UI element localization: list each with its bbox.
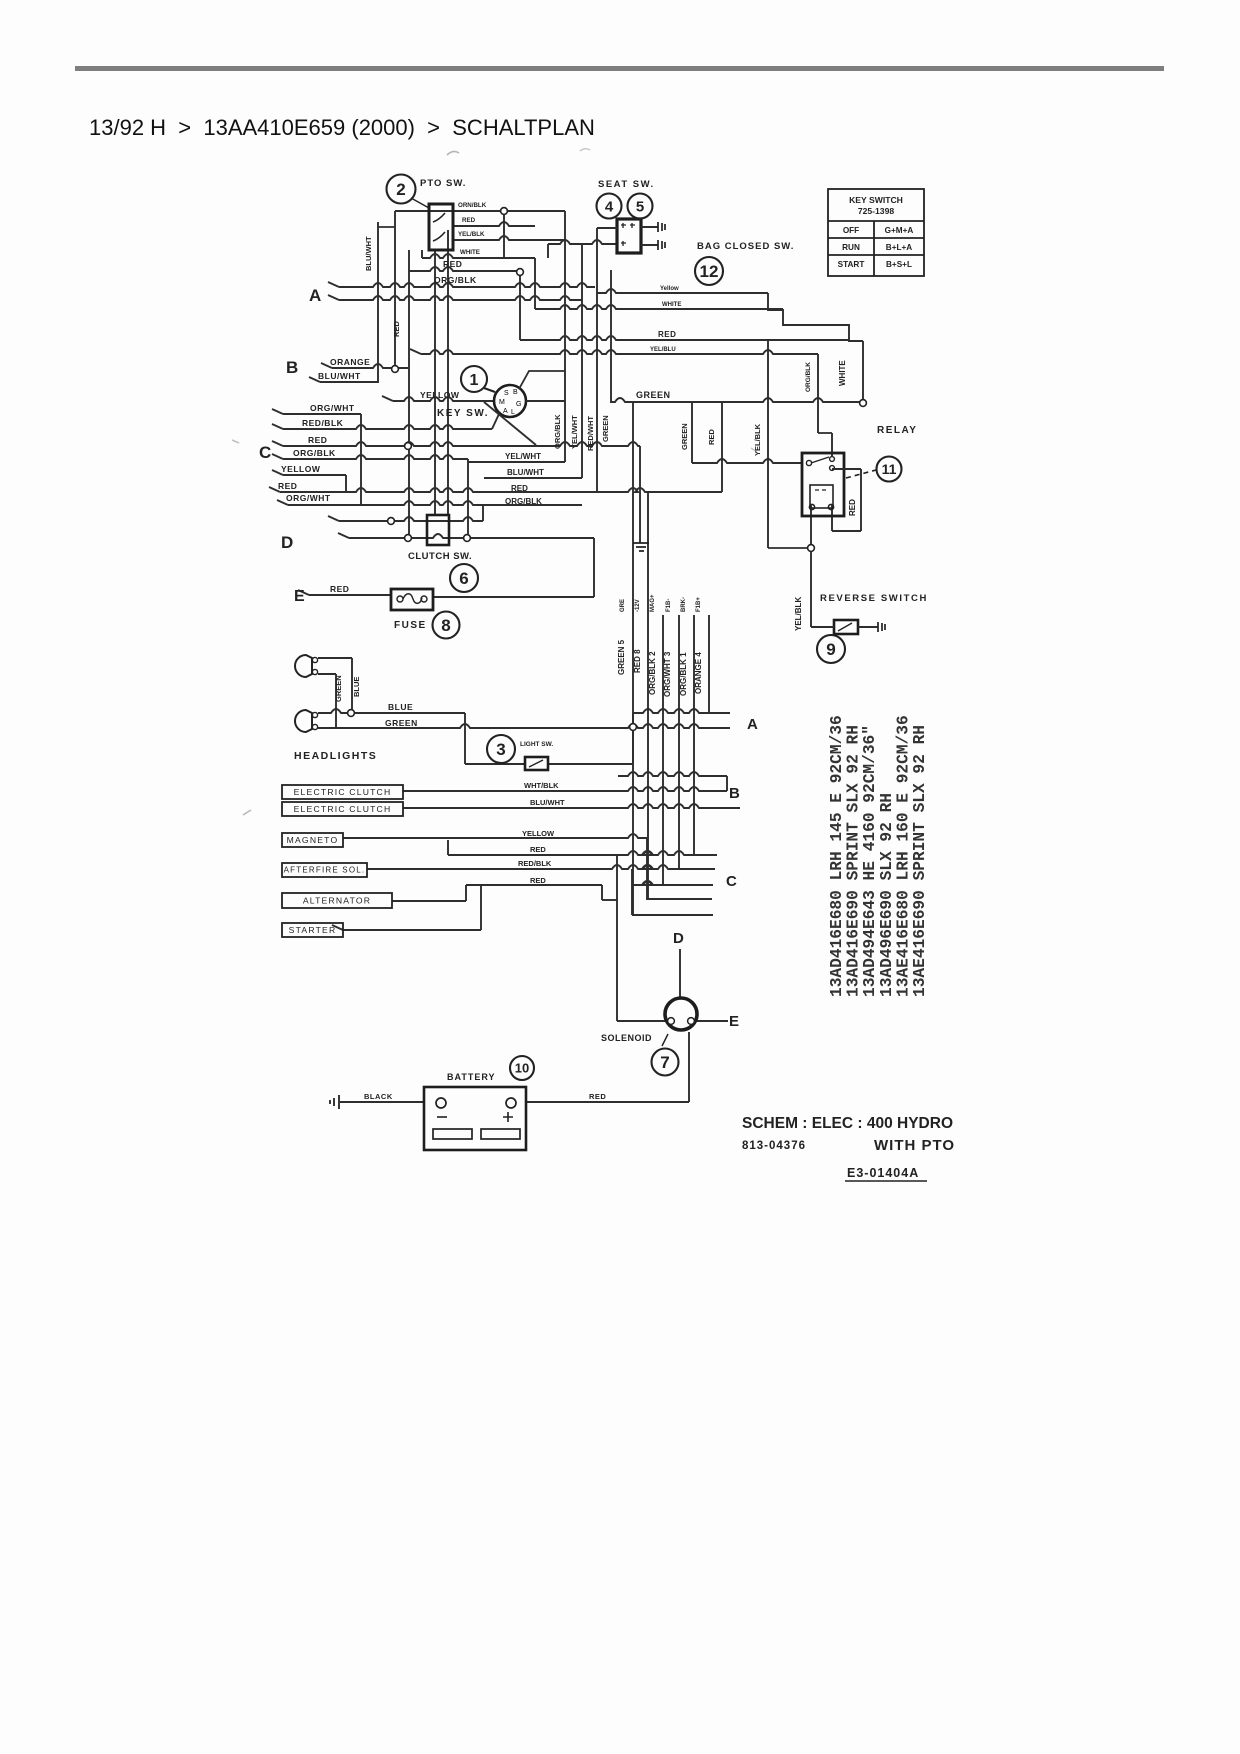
wire starter wire: [343, 929, 481, 931]
svg-text:BLU/WHT: BLU/WHT: [318, 371, 361, 381]
svg-text:FUSE: FUSE: [394, 620, 427, 631]
svg-text:BAG CLOSED SW.: BAG CLOSED SW.: [697, 241, 794, 252]
svg-text:ALTERNATOR: ALTERNATOR: [303, 895, 371, 905]
svg-text:RED: RED: [530, 876, 546, 885]
svg-text:AFTERFIRE SOL.: AFTERFIRE SOL.: [284, 866, 366, 875]
ground symbol battery: [330, 1095, 339, 1109]
wire YELLOW drop: [345, 475, 347, 491]
svg-text:YEL/BLK: YEL/BLK: [458, 231, 485, 238]
svg-text:RED/BLK: RED/BLK: [302, 418, 344, 428]
starter box: [282, 923, 343, 937]
svg-text:SEAT SW.: SEAT SW.: [598, 179, 655, 190]
wire GREEN 5 column: [632, 403, 634, 916]
connector plug 2: [658, 240, 665, 250]
callout 4 (seat sw): [597, 194, 622, 219]
battery terminals: [436, 1098, 516, 1108]
svg-text:SCHEM : ELEC : 400 HYDRO: SCHEM : ELEC : 400 HYDRO: [742, 1115, 953, 1132]
svg-text:GREEN: GREEN: [601, 415, 610, 442]
wire fuse to riser: [433, 596, 594, 598]
wire light-sw right drop: [632, 713, 634, 764]
svg-text:13AE416E690 SPRINT SLX 92 RH: 13AE416E690 SPRINT SLX 92 RH: [911, 725, 929, 997]
wire light sw out: [547, 763, 633, 765]
svg-text:F1B+: F1B+: [696, 597, 702, 612]
svg-text:13/92 H > 13AA410E659 (2000): 13/92 H > 13AA410E659 (2000) > SCHALTPLA…: [89, 115, 595, 140]
headlight lamp 2: [295, 710, 318, 732]
svg-text:MAGNETO: MAGNETO: [287, 835, 339, 845]
svg-text:3: 3: [496, 740, 505, 759]
svg-text:S: S: [504, 390, 509, 397]
svg-text:WHITE: WHITE: [460, 249, 480, 256]
svg-text:RED: RED: [707, 429, 716, 445]
svg-text:YEL/WHT: YEL/WHT: [505, 452, 541, 461]
svg-text:L: L: [511, 409, 515, 416]
seat switch box: [617, 219, 641, 253]
wire RED battery wire: [526, 1101, 689, 1103]
svg-text:GREEN: GREEN: [334, 675, 343, 702]
svg-text:WHITE: WHITE: [838, 360, 847, 386]
wire ORG/BLK 2 column: [662, 615, 664, 884]
svg-text:RED: RED: [848, 499, 857, 516]
svg-text:RED: RED: [443, 259, 462, 269]
wire clutch right drop: [467, 459, 469, 538]
artifact mark 2: [580, 149, 590, 151]
key switch table: [828, 189, 924, 276]
callout 7 (solenoid): [652, 1049, 679, 1076]
svg-text:ORN/BLK: ORN/BLK: [458, 202, 487, 209]
battery box: [424, 1087, 526, 1150]
alternator box: [282, 893, 392, 908]
svg-text:YELLOW: YELLOW: [281, 464, 321, 474]
junction x520: [517, 269, 524, 276]
wire clutch row lower: [349, 534, 594, 538]
headlight lamp 1: [295, 655, 318, 677]
wire GREEN row long: [318, 724, 730, 728]
svg-text:B: B: [729, 785, 740, 802]
key diag up: [519, 371, 565, 389]
wire blu/wht top stub: [378, 226, 395, 228]
wire ORANGE 4 column: [708, 615, 710, 713]
top rule: [75, 66, 1164, 71]
wire seat out 1: [641, 226, 658, 228]
junction clutch-a: [388, 518, 395, 525]
svg-text:WITH PTO: WITH PTO: [874, 1137, 955, 1154]
svg-text:9: 9: [826, 640, 835, 659]
svg-text:RED: RED: [530, 845, 546, 854]
wire YEL/BLK link: [768, 547, 811, 549]
svg-text:START: START: [838, 260, 865, 269]
wire row C right 899: [647, 898, 712, 900]
relay contact out: [832, 468, 861, 470]
wire node drop x504: [503, 211, 505, 258]
electric clutch 1 box: [282, 785, 403, 799]
wire BLU/WHT row B: [320, 381, 378, 383]
svg-text:725-1398: 725-1398: [858, 206, 895, 216]
svg-text:ORANGE 4: ORANGE 4: [694, 652, 703, 694]
wire white drop x535: [534, 258, 536, 309]
svg-text:RED: RED: [511, 484, 528, 493]
leader 1 to key: [484, 388, 495, 392]
wire lamp1 top pin wire: [318, 657, 352, 659]
svg-text:BLU/WHT: BLU/WHT: [530, 798, 565, 807]
svg-text:GREEN 5: GREEN 5: [617, 639, 626, 675]
wire GREEN route: [611, 398, 863, 402]
wire node drop x520: [519, 272, 521, 340]
svg-text:10: 10: [515, 1061, 529, 1076]
svg-text:D: D: [673, 930, 684, 947]
wire ORG/WHT row D: [288, 501, 582, 505]
wire solenoid feed: [616, 855, 618, 1021]
svg-text:F1B-: F1B-: [666, 599, 672, 612]
svg-text:BLUE: BLUE: [352, 677, 361, 697]
wire YEL/BLU route: [421, 350, 818, 354]
junction x504: [501, 208, 508, 215]
svg-text:RED: RED: [589, 1092, 606, 1101]
fuse element: [397, 594, 427, 604]
svg-text:B: B: [513, 389, 518, 396]
wire alternator wire: [392, 900, 466, 902]
svg-text:BLUE: BLUE: [388, 702, 413, 712]
wire row C right 915: [633, 914, 713, 916]
callout 11 (relay): [877, 457, 902, 482]
svg-text:M: M: [499, 399, 505, 406]
wire seat out 2: [641, 244, 658, 246]
wire solenoid left wire: [617, 1020, 666, 1022]
callout 1 (key sw): [461, 366, 487, 392]
svg-text:-12V: -12V: [635, 599, 641, 612]
svg-text:RED: RED: [308, 435, 327, 445]
svg-text:13AD416E690 SPRINT SLX 92 RH: 13AD416E690 SPRINT SLX 92 RH: [845, 725, 863, 997]
svg-text:CLUTCH SW.: CLUTCH SW.: [408, 551, 472, 562]
callout 2 (PTO SW): [387, 175, 416, 204]
key switch (1): [494, 385, 526, 417]
callout 12 (bag closed sw): [695, 257, 723, 285]
wire lamp1 bottom pin wire: [318, 673, 336, 675]
svg-text:11: 11: [882, 461, 897, 477]
svg-text:PTO SW.: PTO SW.: [420, 178, 466, 189]
fuse box: [391, 589, 433, 610]
svg-text:BLACK: BLACK: [364, 1092, 393, 1101]
wire relay to reverse: [810, 505, 812, 627]
svg-text:D: D: [281, 533, 293, 552]
wire relay feed: [692, 459, 802, 463]
callout 5 (seat sw): [628, 194, 653, 219]
relay bottom link: [832, 530, 861, 532]
svg-text:BRK-: BRK-: [681, 597, 687, 612]
wire alt drop x481: [480, 885, 482, 930]
wire row B right: [618, 772, 727, 776]
svg-text:YEL/BLK: YEL/BLK: [753, 423, 762, 456]
svg-text:13AD494E643 HE 4160 92CM/36": 13AD494E643 HE 4160 92CM/36": [861, 725, 879, 997]
svg-text:RED 8: RED 8: [633, 649, 642, 673]
battery cells: [433, 1129, 520, 1139]
svg-text:ORG/WHT 3: ORG/WHT 3: [663, 651, 672, 697]
svg-text:LIGHT SW.: LIGHT SW.: [520, 741, 553, 748]
svg-text:C: C: [726, 873, 737, 890]
wire red jog: [602, 899, 617, 901]
svg-text:B: B: [286, 358, 298, 377]
wire row A1 right: [633, 709, 730, 713]
callout 10 (battery): [510, 1056, 534, 1080]
svg-text:OFF: OFF: [843, 226, 859, 235]
svg-text:B+S+L: B+S+L: [886, 260, 912, 269]
svg-text:E3-01404A: E3-01404A: [847, 1166, 919, 1180]
wire GREEN drop x692: [691, 402, 693, 463]
pto switch blades: [433, 213, 445, 241]
wire reverse sw right: [858, 626, 878, 628]
svg-text:WHITE: WHITE: [662, 302, 681, 308]
afterfire sol box: [282, 863, 367, 877]
wire solenoid E wire: [697, 1020, 728, 1022]
wire light sw feed: [465, 763, 525, 765]
wire RED/BLK continued: [632, 881, 713, 885]
key diag redblk: [492, 414, 499, 429]
wire BLU/WHT vertical bus: [377, 222, 379, 383]
relay coil: [809, 485, 833, 510]
svg-text:ORG/BLK: ORG/BLK: [434, 275, 477, 285]
wire seat feed upper: [597, 227, 617, 229]
wire PTO white drop a: [421, 250, 423, 258]
wire RED fuse wire: [309, 594, 391, 596]
junction green5-a: [630, 724, 637, 731]
relay contact: [806, 457, 834, 471]
svg-text:ORG/BLK: ORG/BLK: [553, 414, 562, 449]
wire RED/WHT column: [596, 228, 598, 492]
relay box: [802, 453, 844, 516]
wire RED row engine: [448, 851, 717, 855]
wire ORG/WHT 3 column: [678, 615, 680, 869]
junction clutch-c: [464, 535, 471, 542]
wire YEL/WHT column: [581, 244, 583, 478]
relay leader dash: [846, 470, 876, 478]
svg-text:G+M+A: G+M+A: [885, 226, 914, 235]
wire ground drop: [639, 446, 641, 543]
svg-text:5: 5: [636, 198, 644, 215]
wire RED route long: [520, 336, 849, 340]
junction clutch-b: [405, 535, 412, 542]
svg-text:HEADLIGHTS: HEADLIGHTS: [294, 750, 377, 762]
svg-text:B+L+A: B+L+A: [886, 243, 912, 252]
wire red bend: [447, 840, 449, 855]
wire headlight green drop: [335, 674, 337, 728]
wire RED from PTO sw: [453, 222, 535, 226]
svg-text:6: 6: [459, 569, 468, 588]
wire reverse sw left: [811, 626, 834, 628]
wire red/blk drop x632: [631, 869, 633, 915]
svg-text:RED: RED: [330, 584, 349, 594]
svg-text:YELLOW: YELLOW: [420, 390, 460, 400]
wire BLACK battery wire: [340, 1101, 424, 1103]
wire D drop: [679, 949, 681, 998]
svg-text:BLU/WHT: BLU/WHT: [364, 236, 373, 271]
svg-text:ORG/BLK: ORG/BLK: [293, 448, 336, 458]
wire YELLOW to key sw: [393, 397, 494, 401]
wire YELLOW row C: [283, 474, 346, 476]
wire WHT/BLK electric clutch wire: [403, 787, 727, 791]
wire PTO-clutch left: [434, 250, 436, 516]
ground symbol middle: [633, 543, 649, 551]
svg-text:RED: RED: [278, 481, 297, 491]
svg-text:MAG+: MAG+: [650, 594, 656, 612]
wire YELLOW magneto wire: [343, 834, 647, 838]
wire RED alternator wire: [466, 884, 602, 886]
svg-text:G: G: [516, 401, 521, 408]
wire RED/BLK row C: [283, 425, 492, 429]
wire fuse riser: [593, 538, 595, 597]
svg-text:RED/WHT: RED/WHT: [586, 416, 595, 451]
svg-text:RED: RED: [392, 321, 401, 337]
wire RED row C long: [280, 488, 722, 492]
electric clutch 2 box: [282, 802, 403, 816]
wire RED row C: [283, 442, 640, 446]
svg-text:RELAY: RELAY: [877, 425, 917, 436]
svg-text:12: 12: [700, 262, 719, 281]
solenoid leader: [662, 1034, 668, 1046]
wire RED/BLK afterfire wire: [367, 865, 715, 869]
wire RED 8 column: [647, 492, 649, 900]
connector plug 1: [658, 222, 665, 232]
svg-text:8: 8: [441, 616, 450, 635]
wire battery red riser: [688, 1032, 690, 1102]
wire ORANGE row B: [332, 364, 409, 368]
svg-text:GREEN: GREEN: [385, 718, 418, 728]
wire alt drop x466: [465, 885, 467, 901]
svg-text:REVERSE SWITCH: REVERSE SWITCH: [820, 593, 928, 604]
wire seat drop x548: [547, 244, 549, 258]
svg-text:ORG/BLK: ORG/BLK: [805, 362, 812, 392]
svg-text:13AD496E690 SLX 92 RH: 13AD496E690 SLX 92 RH: [878, 793, 896, 997]
svg-text:2: 2: [396, 180, 405, 199]
svg-text:GREEN: GREEN: [680, 423, 689, 450]
wire YEL/BLK from PTO sw: [453, 236, 565, 240]
callout 6 (clutch sw): [450, 564, 478, 592]
reverse switch box: [834, 620, 858, 634]
svg-text:ORANGE: ORANGE: [330, 357, 370, 367]
seat switch pins: [621, 223, 635, 246]
wire red drop x602: [601, 885, 603, 900]
wire relay jog: [818, 432, 832, 434]
junction green-white: [860, 400, 867, 407]
artifact mark 3: [243, 810, 251, 815]
svg-text:Yellow: Yellow: [660, 286, 679, 292]
wire clutch row upper: [339, 517, 483, 521]
wire WHITE route: [535, 305, 783, 309]
wire B bracket: [726, 776, 728, 791]
wire RED vertical bus: [394, 211, 396, 369]
wire ORG/BLK row A: [339, 283, 595, 287]
wire ORG/BLK 1 column: [693, 615, 695, 855]
wire ORG/BLK relay drop: [817, 354, 819, 433]
svg-text:813-04376: 813-04376: [742, 1140, 806, 1152]
wire WHITE drop: [862, 341, 864, 403]
svg-text:ELECTRIC CLUTCH: ELECTRIC CLUTCH: [294, 787, 392, 797]
wire ORG/BLK drop: [482, 505, 484, 521]
svg-text:BLU/WHT: BLU/WHT: [507, 468, 544, 477]
wire row A lower: [339, 296, 582, 300]
artifact mark 5: [751, 448, 757, 452]
svg-text:ELECTRIC CLUTCH: ELECTRIC CLUTCH: [294, 804, 392, 814]
svg-text:ORG/BLK 2: ORG/BLK 2: [648, 651, 657, 695]
svg-text:A: A: [747, 716, 758, 733]
artifact mark 1: [447, 151, 459, 155]
wire ORG/BLK row C: [283, 455, 468, 459]
svg-text:YEL/BLU: YEL/BLU: [650, 347, 676, 353]
key diag yellow: [484, 402, 536, 445]
wire RED row upper: [409, 267, 520, 271]
svg-text:BATTERY: BATTERY: [447, 1072, 496, 1082]
svg-text:1: 1: [470, 372, 479, 389]
svg-text:ORG/WHT: ORG/WHT: [286, 493, 331, 503]
wire yellow step: [768, 293, 863, 341]
solenoid: [665, 998, 697, 1030]
wire ORG/WHT drop: [360, 414, 362, 505]
wire seat switch feed: [548, 240, 617, 244]
svg-text:YEL/BLK: YEL/BLK: [794, 597, 803, 631]
svg-text:KEY SW.: KEY SW.: [437, 408, 489, 419]
wire YEL/WHT row: [468, 461, 565, 463]
svg-text:C: C: [259, 443, 271, 462]
svg-text:SOLENOID: SOLENOID: [601, 1033, 652, 1043]
svg-text:YELLOW: YELLOW: [522, 829, 555, 838]
leader to pto: [411, 198, 429, 208]
svg-text:RUN: RUN: [842, 243, 860, 252]
callout 3 (light sw): [487, 735, 515, 763]
svg-text:4: 4: [605, 198, 614, 215]
junction relay-low: [808, 545, 815, 552]
clutch switch box: [427, 515, 449, 545]
battery polarity: [437, 1112, 513, 1122]
svg-text:STARTER: STARTER: [289, 925, 337, 935]
callout 8 (fuse): [433, 612, 460, 639]
wire PTO-clutch right: [447, 230, 449, 515]
callout 9 (reverse sw): [817, 635, 845, 663]
svg-text:RED: RED: [462, 217, 476, 224]
svg-text:13AE416E680 LRH 160 E 92CM/36: 13AE416E680 LRH 160 E 92CM/36: [894, 715, 912, 997]
svg-text:GRE: GRE: [620, 599, 626, 612]
svg-text:A: A: [503, 408, 508, 415]
svg-text:7: 7: [660, 1053, 669, 1072]
svg-text:RED/BLK: RED/BLK: [518, 859, 552, 868]
svg-text:ORG/WHT: ORG/WHT: [310, 403, 355, 413]
wire BLU/WHT row: [484, 477, 582, 479]
wire light-sw drop: [464, 713, 466, 764]
svg-text:E: E: [294, 588, 305, 605]
svg-text:RED: RED: [658, 330, 676, 339]
wire key sw right wire: [526, 400, 565, 402]
wire WHITE from PTO sw: [422, 254, 535, 258]
wire ORN/BLK from PTO sw: [395, 210, 565, 212]
svg-text:YEL/WHT: YEL/WHT: [570, 415, 579, 449]
svg-text:ORG/BLK 1: ORG/BLK 1: [679, 652, 688, 696]
svg-text:E: E: [729, 1013, 739, 1030]
svg-text:GREEN: GREEN: [636, 390, 671, 400]
wire relay right leg: [860, 469, 862, 531]
svg-text:ORG/BLK: ORG/BLK: [505, 497, 542, 506]
junction orange: [392, 366, 399, 373]
junction lamp-blue: [348, 710, 355, 717]
magneto box: [282, 833, 343, 847]
wire relay coil leg: [831, 505, 833, 531]
wire ORG/BLK column: [564, 211, 566, 462]
wire left bus: [408, 250, 410, 538]
wire relay top drop: [831, 433, 833, 456]
light switch box: [525, 757, 548, 770]
connector plug reverse: [878, 622, 885, 632]
wire YEL/BLK column: [767, 341, 769, 548]
junction red-left: [405, 443, 412, 450]
wire ORG/WHT row C: [283, 413, 361, 415]
wire RED drop x722: [721, 403, 723, 492]
artifact mark 4: [232, 440, 239, 443]
